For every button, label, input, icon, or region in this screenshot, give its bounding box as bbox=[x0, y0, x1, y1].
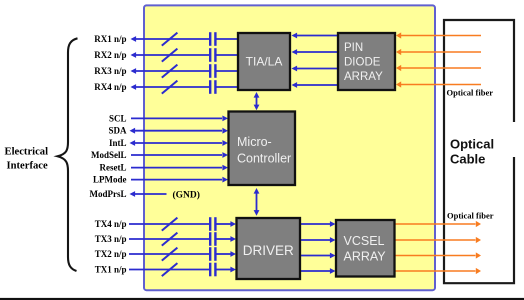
svg-text:ModPrsL: ModPrsL bbox=[90, 189, 127, 199]
svg-text:TX1 n/p: TX1 n/p bbox=[95, 265, 127, 275]
svg-text:DRIVER: DRIVER bbox=[243, 243, 294, 258]
svg-text:Cable: Cable bbox=[450, 152, 485, 167]
svg-text:TIA/LA: TIA/LA bbox=[246, 55, 283, 69]
svg-text:SCL: SCL bbox=[109, 113, 127, 123]
svg-text:TX2 n/p: TX2 n/p bbox=[95, 249, 127, 259]
svg-text:RX2 n/p: RX2 n/p bbox=[94, 50, 126, 60]
svg-text:Optical: Optical bbox=[450, 136, 494, 151]
svg-text:ResetL: ResetL bbox=[100, 163, 127, 173]
svg-text:IntL: IntL bbox=[109, 138, 127, 148]
svg-text:VCSEL: VCSEL bbox=[344, 234, 385, 248]
svg-text:ModSelL: ModSelL bbox=[91, 150, 127, 160]
svg-text:Controller: Controller bbox=[237, 152, 291, 166]
svg-text:DIODE: DIODE bbox=[344, 57, 381, 69]
svg-text:RX3 n/p: RX3 n/p bbox=[94, 66, 126, 76]
svg-text:TX4 n/p: TX4 n/p bbox=[95, 219, 127, 229]
svg-text:RX1 n/p: RX1 n/p bbox=[94, 34, 126, 44]
svg-text:RX4 n/p: RX4 n/p bbox=[94, 82, 126, 92]
svg-text:ARRAY: ARRAY bbox=[344, 71, 383, 83]
svg-text:Optical fiber: Optical fiber bbox=[447, 87, 494, 97]
svg-text:SDA: SDA bbox=[108, 126, 127, 136]
svg-text:PIN: PIN bbox=[344, 42, 363, 54]
svg-text:TX3 n/p: TX3 n/p bbox=[95, 234, 127, 244]
svg-text:Optical fiber: Optical fiber bbox=[447, 211, 494, 221]
svg-text:Interface: Interface bbox=[7, 161, 48, 172]
svg-text:Micro-: Micro- bbox=[237, 135, 272, 149]
svg-text:Electrical: Electrical bbox=[5, 147, 49, 158]
svg-text:ARRAY: ARRAY bbox=[344, 250, 387, 264]
svg-text:(GND): (GND) bbox=[173, 190, 200, 201]
svg-text:LPMode: LPMode bbox=[93, 175, 127, 185]
